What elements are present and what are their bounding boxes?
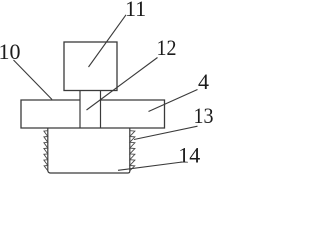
leader line 13 (134, 126, 198, 139)
leader line 11 (89, 15, 127, 67)
horizontal bar (parts 10 / 4) (21, 100, 165, 128)
threaded cylinder body (parts 13 / 14) (48, 128, 130, 173)
leader line 12 (87, 58, 158, 111)
right thread teeth (130, 131, 135, 171)
leader line 10 (14, 60, 53, 100)
leader line 14 (118, 162, 182, 170)
left thread teeth (44, 131, 48, 171)
leader line 4 (149, 90, 198, 112)
shaft 12 (vertical stem through bar) (80, 91, 101, 129)
svg-text:14: 14 (178, 143, 200, 168)
svg-text:13: 13 (194, 103, 214, 128)
svg-text:11: 11 (125, 0, 146, 21)
svg-text:12: 12 (157, 35, 177, 60)
top head block 11 (64, 42, 117, 91)
svg-text:10: 10 (0, 39, 21, 64)
svg-text:4: 4 (198, 69, 209, 94)
